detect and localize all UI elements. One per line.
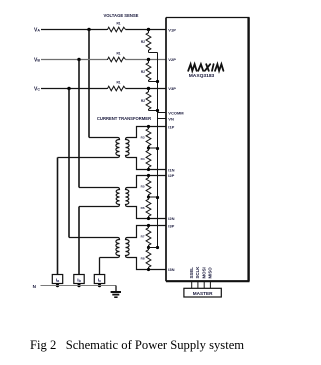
resistor R7 burden T3 — [146, 226, 151, 248]
load box Ia — [52, 275, 62, 284]
svg-text:VC: VC — [34, 86, 40, 92]
block MASTER — [184, 288, 221, 297]
wire phase A right — [126, 29, 167, 31]
svg-text:R1: R1 — [116, 22, 120, 26]
wire R2 phase C to bus — [149, 110, 158, 112]
svg-text:Ic: Ic — [98, 278, 101, 284]
junction burden mid T1 — [147, 146, 150, 149]
junction burden top T3 — [147, 224, 150, 227]
junction phase C drop — [67, 87, 70, 90]
svg-text:R7: R7 — [141, 235, 145, 239]
junction burden bottom T2 — [147, 217, 150, 220]
junction on bus — [156, 80, 159, 83]
svg-text:R2: R2 — [141, 40, 145, 44]
wire phase C right — [126, 88, 167, 90]
wire phase A vertical drop — [88, 30, 90, 138]
svg-text:R5: R5 — [141, 184, 145, 188]
junction Ic neutral — [98, 284, 101, 287]
junction on bus — [156, 246, 159, 249]
junction burden top T2 — [147, 174, 150, 177]
svg-text:I2P: I2P — [168, 173, 174, 178]
wire load c riser — [99, 258, 101, 275]
svg-text:VN: VN — [168, 117, 174, 122]
transformer T1 primary coil — [58, 138, 120, 158]
wire phase B left — [41, 59, 107, 61]
wire VCOMM/VN bus vertical — [157, 53, 159, 248]
wire phase C left — [41, 88, 107, 90]
wire SCLK stub — [197, 282, 199, 288]
wire center tap T3 — [149, 247, 158, 249]
resistor R5 burden T2 — [146, 176, 151, 198]
transformer T3 secondary coil — [126, 226, 167, 270]
junction burden mid T2 — [147, 195, 150, 198]
svg-text:VOLTAGE SENSE: VOLTAGE SENSE — [104, 13, 139, 18]
svg-text:SCLK: SCLK — [195, 266, 200, 279]
IC U1 MAXQ3183 body — [166, 18, 250, 282]
wire neutral — [41, 285, 117, 287]
wire Ic to neutral — [99, 284, 101, 286]
wire load a riser — [57, 158, 59, 275]
svg-text:R6: R6 — [141, 206, 145, 210]
svg-text:R4: R4 — [141, 157, 145, 161]
svg-text:MASTER: MASTER — [193, 291, 213, 296]
wire phase B right — [126, 59, 167, 61]
wire R2 phase B to bus — [149, 81, 158, 83]
svg-text:R1: R1 — [116, 52, 120, 56]
resistor R8 burden T3 — [146, 248, 151, 270]
resistor R2 phase C — [146, 89, 151, 111]
svg-text:I3N: I3N — [168, 267, 174, 272]
wire phase A left — [41, 29, 107, 31]
svg-text:CURRENT TRANSFORMER: CURRENT TRANSFORMER — [97, 116, 151, 121]
svg-text:R8: R8 — [141, 257, 145, 261]
resistor R2 phase B — [146, 60, 151, 82]
resistor R1 phase C — [107, 86, 126, 91]
svg-text:V3P: V3P — [168, 86, 176, 91]
junction Ia neutral — [56, 284, 59, 287]
svg-text:N: N — [33, 284, 37, 289]
junction burden top T1 — [147, 125, 150, 128]
wire load b riser — [78, 207, 80, 275]
wire phase B vertical drop — [78, 60, 80, 188]
junction phase A divider — [147, 28, 150, 31]
load box Ib — [74, 275, 84, 284]
svg-text:MAXQ3183: MAXQ3183 — [189, 73, 215, 79]
junction on bus — [156, 196, 159, 199]
svg-text:R3: R3 — [141, 135, 145, 139]
wire center tap T2 — [149, 196, 158, 198]
svg-text:I2N: I2N — [168, 216, 174, 221]
wire phase C vertical drop — [68, 89, 70, 238]
caption Fig 2 — [30, 338, 244, 353]
svg-text:I1P: I1P — [168, 124, 174, 129]
svg-text:SSEL: SSEL — [189, 267, 194, 279]
wire Ib to neutral — [78, 284, 80, 286]
resistor R1 phase A — [107, 27, 126, 32]
svg-text:R1: R1 — [116, 81, 120, 85]
wire MISO stub — [209, 282, 211, 288]
IC U1 MAXIM logo — [188, 64, 223, 71]
wire VCOMM stub — [158, 112, 167, 114]
resistor R4 burden T1 — [146, 148, 151, 170]
resistor R2 phase A — [146, 30, 151, 53]
junction burden mid T3 — [147, 246, 150, 249]
svg-text:MOSI: MOSI — [202, 267, 207, 278]
junction phase C divider — [147, 87, 150, 90]
junction phase B drop — [77, 58, 80, 61]
junction on bus — [156, 147, 159, 150]
junction burden bottom T3 — [147, 268, 150, 271]
svg-text:VCOMM: VCOMM — [168, 111, 184, 116]
wire SSEL stub — [191, 282, 193, 288]
ground — [111, 286, 121, 298]
transformer T3 primary coil — [69, 238, 120, 258]
junction Ib neutral — [77, 284, 80, 287]
transformer T2 primary coil — [79, 188, 120, 207]
svg-text:MISO: MISO — [208, 267, 213, 279]
wire VN stub — [158, 118, 167, 120]
wire R2 phase A to bus — [149, 52, 158, 54]
resistor R3 burden T1 — [146, 127, 151, 149]
svg-text:VA: VA — [34, 27, 40, 33]
wire MOSI stub — [203, 282, 205, 288]
resistor R6 burden T2 — [146, 197, 151, 219]
svg-text:V1P: V1P — [168, 27, 176, 32]
wire Ia to neutral — [57, 284, 59, 286]
transformer T2 secondary coil — [126, 176, 167, 219]
junction phase B divider — [147, 58, 150, 61]
svg-text:I1N: I1N — [168, 168, 174, 173]
transformer T1 secondary coil — [126, 127, 167, 170]
svg-text:I3P: I3P — [168, 224, 174, 229]
svg-text:VB: VB — [34, 57, 40, 63]
junction phase A drop — [87, 28, 90, 31]
svg-text:R2: R2 — [141, 99, 145, 103]
junction burden bottom T1 — [147, 168, 150, 171]
svg-text:R2: R2 — [141, 70, 145, 74]
junction on bus — [156, 109, 159, 112]
load box Ic — [94, 275, 104, 284]
resistor R1 phase B — [107, 57, 126, 62]
wire center tap T1 — [149, 147, 158, 149]
svg-text:V2P: V2P — [168, 57, 176, 62]
